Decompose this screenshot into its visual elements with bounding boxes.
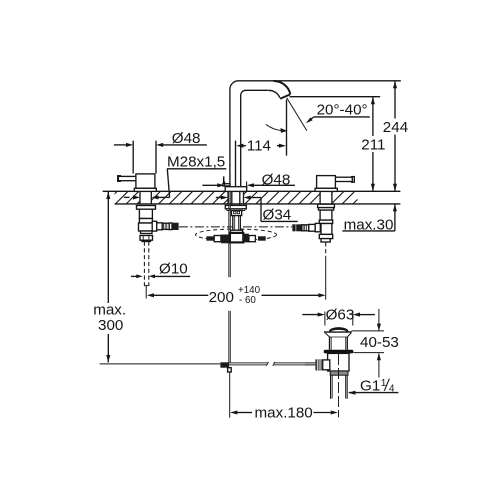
svg-text:M28x1,5: M28x1,5: [167, 153, 225, 170]
svg-text:244: 244: [383, 119, 408, 136]
svg-text:max.30: max.30: [344, 216, 394, 233]
svg-text:G1: G1: [360, 377, 380, 394]
svg-text:40-53: 40-53: [360, 334, 399, 351]
svg-text:Ø48: Ø48: [172, 130, 201, 147]
svg-text:- 60: - 60: [239, 295, 256, 306]
svg-text:1: 1: [381, 378, 386, 389]
svg-text:300: 300: [98, 317, 123, 334]
svg-text:114: 114: [247, 138, 271, 155]
svg-text:20°-40°: 20°-40°: [317, 102, 368, 119]
svg-text:Ø10: Ø10: [159, 261, 188, 278]
svg-text:200: 200: [209, 289, 234, 306]
svg-text:max.180: max.180: [255, 405, 313, 422]
svg-text:4: 4: [389, 383, 395, 394]
svg-text:Ø63: Ø63: [326, 307, 355, 324]
svg-text:Ø34: Ø34: [263, 207, 292, 224]
svg-text:211: 211: [361, 137, 385, 154]
svg-text:Ø48: Ø48: [262, 172, 291, 189]
svg-text:max.: max.: [93, 301, 126, 318]
